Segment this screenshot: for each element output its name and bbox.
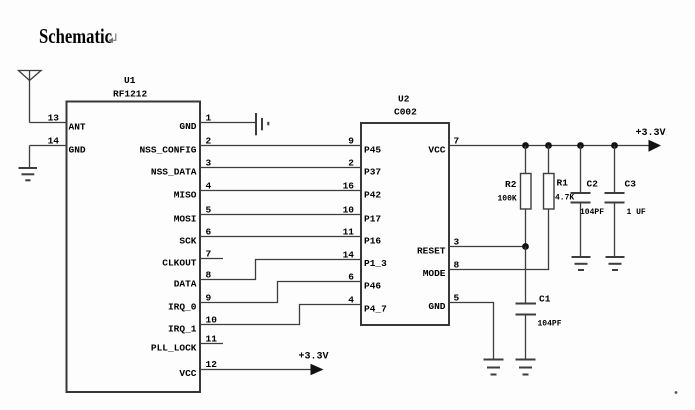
wire U1 pin 14 GND [30,135,86,168]
capacitor C1 104PF [516,247,562,360]
junction node at R1 top [545,142,552,149]
svg-text:12: 12 [206,359,218,370]
svg-text:7: 7 [206,249,212,260]
wire U1 pin 13 ANT [30,113,86,133]
svg-text:DATA: DATA [174,279,197,290]
junction node at C2 top [577,142,584,149]
svg-text:2: 2 [206,136,212,147]
svg-text:C1: C1 [539,294,551,305]
svg-text:2: 2 [348,158,354,169]
wire U1 pin 11 PLL_LOCK stub [151,334,223,354]
svg-text:104PF: 104PF [580,208,604,217]
svg-text:MOSI: MOSI [174,214,197,225]
svg-text:GND: GND [69,144,86,155]
wire U1 pin 6 SCK to U2 pin 11 P16 [179,227,381,247]
svg-text:P4_7: P4_7 [364,304,387,315]
svg-text:1 UF: 1 UF [627,208,646,217]
svg-text:13: 13 [48,113,60,124]
svg-text:6: 6 [348,272,354,283]
svg-text:P1_3: P1_3 [364,258,387,269]
junction node at R2 top [522,142,529,149]
wire U1 pin 7 CLKOUT stub [162,249,223,269]
svg-text:10: 10 [343,205,355,216]
svg-text:4: 4 [206,181,212,192]
svg-text:7: 7 [454,136,460,147]
antenna [19,71,42,123]
capacitor C2 104PF [571,146,605,258]
svg-text:P37: P37 [364,167,381,178]
svg-text:R2: R2 [505,179,517,190]
IC U2 C002 box [361,94,449,326]
stray mark bottom right [675,391,678,394]
svg-text:NSS_CONFIG: NSS_CONFIG [139,145,196,156]
resistor R1 4.7K [544,146,575,270]
svg-text:MISO: MISO [174,190,197,201]
svg-text:ANT: ANT [69,122,86,133]
svg-text:C002: C002 [394,107,417,118]
svg-text:6: 6 [206,227,212,238]
U1 pin 1 GND wire [179,113,255,133]
svg-text:8: 8 [454,260,460,271]
wire U2 pin 5 GND [428,293,493,360]
svg-text:IRQ_1: IRQ_1 [168,324,197,335]
svg-text:11: 11 [343,227,355,238]
junction node RESET R2 C1 [522,243,529,250]
svg-text:9: 9 [348,136,354,147]
svg-text:GND: GND [179,121,196,132]
ground under C3 [606,257,625,270]
svg-text:9: 9 [206,293,212,304]
svg-text:4: 4 [348,295,354,306]
svg-text:U1: U1 [124,75,136,86]
wire U1 pin 9 IRQ_0 to U2 pin 6 P46 [168,272,381,313]
ground under C1 [516,360,536,375]
svg-text:RF1212: RF1212 [113,89,148,100]
ground sideways at U1 pin 1 [256,113,268,135]
svg-text:104PF: 104PF [538,320,562,329]
svg-text:+3.3V: +3.3V [636,128,666,139]
svg-text:VCC: VCC [428,145,445,156]
ground under C2 [572,257,591,270]
wire U1 pin 2 NSS_CONFIG to U2 pin 9 P45 [139,136,381,156]
svg-text:RESET: RESET [417,246,446,257]
ground under U2 GND [484,360,504,375]
svg-text:14: 14 [343,250,355,261]
svg-text:P45: P45 [364,145,381,156]
wire U1 pin 5 MOSI to U2 pin 10 P17 [174,205,382,225]
svg-text:PLL_LOCK: PLL_LOCK [151,343,197,354]
svg-text:100K: 100K [498,195,517,204]
wire U1 pin 3 NSS_DATA to U2 pin 2 P37 [151,158,382,178]
svg-text:VCC: VCC [179,368,196,379]
wire U2 pin 8 MODE [423,260,550,280]
svg-text:Schematic: Schematic [39,24,112,48]
svg-text:P16: P16 [364,236,381,247]
svg-text:5: 5 [206,205,212,216]
wire U1 pin 4 MISO to U2 pin 16 P42 [174,181,382,201]
wire U1 pin 12 VCC to +3.3V arrow [179,352,328,380]
svg-text:3: 3 [454,237,460,248]
svg-text:MODE: MODE [423,268,446,279]
resistor R2 100K [498,146,532,247]
ground left [19,168,38,180]
junction node at C3 top [611,142,618,149]
wire U1 pin 10 IRQ_1 to U2 pin 4 P4_7 [168,295,387,335]
svg-text:11: 11 [206,334,218,345]
svg-text:1: 1 [206,113,212,124]
svg-text:R1: R1 [557,178,569,189]
svg-text:SCK: SCK [179,236,196,247]
svg-text:+3.3V: +3.3V [299,352,329,363]
svg-text:4.7K: 4.7K [555,194,574,203]
svg-text:14: 14 [48,135,60,146]
svg-text:U2: U2 [398,94,410,105]
wire U2 pin 7 VCC rail to +3.3V arrow [428,128,665,156]
wire U1 pin 8 DATA to U2 pin 14 P1_3 [174,250,387,290]
svg-text:P17: P17 [364,214,381,225]
svg-text:C3: C3 [625,179,637,190]
capacitor C3 1UF [605,146,646,258]
IC U1 RF1212 box [67,75,201,392]
svg-text:5: 5 [454,293,460,304]
svg-text:GND: GND [428,301,445,312]
wire U2 pin 3 RESET [417,237,526,257]
svg-text:CLKOUT: CLKOUT [162,258,197,269]
svg-text:NSS_DATA: NSS_DATA [151,167,197,178]
svg-text:8: 8 [206,270,212,281]
svg-text:16: 16 [343,181,355,192]
svg-text:3: 3 [206,158,212,169]
svg-text:IRQ_0: IRQ_0 [168,302,197,313]
svg-text:P42: P42 [364,190,381,201]
svg-text:P46: P46 [364,281,381,292]
svg-text:10: 10 [206,315,218,326]
title Schematic [39,24,116,48]
svg-text:C2: C2 [587,179,599,190]
